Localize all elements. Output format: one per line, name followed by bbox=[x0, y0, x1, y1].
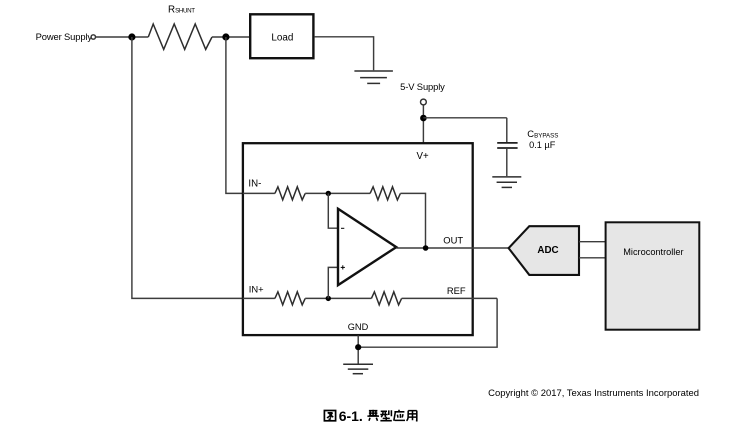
svg-text:GND: GND bbox=[348, 322, 369, 332]
svg-text:OUT: OUT bbox=[443, 234, 463, 245]
svg-text:Microcontroller: Microcontroller bbox=[623, 247, 683, 257]
svg-text:5-V Supply: 5-V Supply bbox=[400, 81, 445, 92]
svg-text:Load: Load bbox=[271, 32, 293, 43]
svg-text:IN+: IN+ bbox=[249, 284, 264, 295]
svg-text:Copyright © 2017, Texas Instru: Copyright © 2017, Texas Instruments Inco… bbox=[488, 388, 699, 399]
svg-text:6-1.: 6-1. bbox=[339, 408, 363, 424]
svg-text:IN-: IN- bbox=[248, 179, 261, 190]
svg-text:Power Supply: Power Supply bbox=[36, 31, 93, 42]
svg-text:0.1 µF: 0.1 µF bbox=[529, 140, 556, 150]
svg-text:ADC: ADC bbox=[537, 245, 558, 256]
svg-text:REF: REF bbox=[447, 285, 466, 296]
svg-text:V+: V+ bbox=[417, 151, 429, 162]
